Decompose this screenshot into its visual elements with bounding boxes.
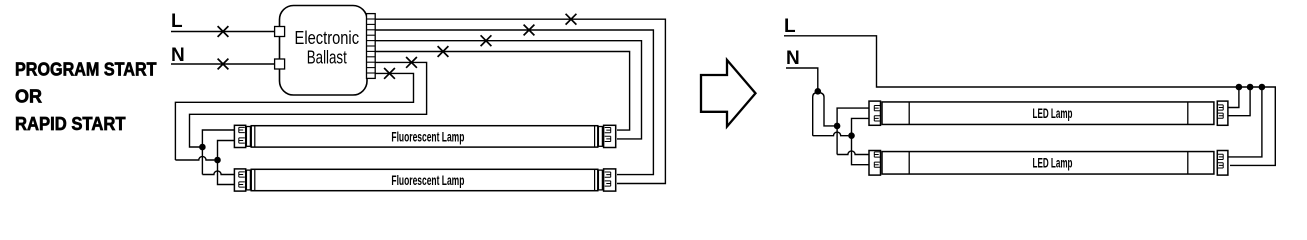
cut mark X on wire 6 [384, 68, 395, 79]
junction D2 (dot) [848, 132, 855, 139]
LED lamp LAMP4 body [869, 151, 1228, 176]
wire L feed to right side [784, 36, 1275, 166]
fluorescent lamp LAMP1 body [234, 125, 615, 147]
LED lamp LAMP3 body [869, 101, 1228, 125]
wire junction A down to bottom lamp left pin 1 (hops wire at x=217.5) [201, 147, 203, 175]
wire left branch to junction D2 (hops wire at x=837.1) [813, 132, 849, 136]
junction dot on L bus 3 [1259, 84, 1266, 91]
svg-text:N: N [171, 45, 185, 66]
wire junction B up to top lamp left pin 2 [218, 141, 237, 161]
junction D1 (dot) [834, 123, 841, 130]
junction A (dot) [199, 144, 206, 151]
svg-text:Electronic: Electronic [295, 27, 360, 48]
fluorescent lamp LAMP2 right pin contacts [605, 172, 611, 186]
wire ballast terminal 5 to junction A [190, 62, 427, 147]
LED lamp LAMP3 left pin contacts [874, 106, 880, 122]
fluorescent lamp LAMP2 body [234, 169, 615, 191]
ballast input terminal (N) [275, 59, 285, 69]
conversion arrow [701, 60, 756, 127]
wire ballast terminal 1 to bottom lamp right pin 2 [375, 19, 665, 183]
wire D2 down to bottom LED lamp left pin 2 [852, 136, 871, 165]
junction dot on L bus 1 [1236, 84, 1243, 91]
ballast input terminal (L) [275, 27, 285, 37]
cut mark X on wire 2 [524, 25, 535, 36]
svg-text:LED Lamp: LED Lamp [1033, 156, 1073, 171]
wire junction A up to top lamp left pin 1 [202, 130, 236, 147]
wire N to ballast [171, 63, 275, 65]
junction N1 (dot) [815, 88, 822, 95]
wire ballast terminal 3 to top lamp right pin 2 [375, 41, 641, 139]
svg-text:Ballast: Ballast [307, 47, 347, 68]
cut mark X on wire 1 [566, 14, 577, 25]
cut mark X on wire 3 [481, 35, 492, 46]
ballast label text [295, 27, 360, 68]
wire N1 split right branch [819, 93, 838, 126]
wire N down to junction N1 [786, 68, 818, 91]
svg-text:LED Lamp: LED Lamp [1033, 106, 1073, 121]
wire junction B down to bottom lamp left pin 2 [218, 160, 237, 185]
svg-text:OR: OR [15, 86, 43, 107]
wire ballast terminal 6 to junction B (hops wire at x=202.4) [175, 73, 413, 160]
wire D1 down to bottom LED lamp left pin 1 (hops wire at x=851.5) [836, 126, 838, 155]
cut mark X on wire 5 [406, 57, 417, 68]
wire D2 up to top LED lamp left pin 2 [852, 118, 871, 135]
svg-text:Fluorescent Lamp: Fluorescent Lamp [391, 173, 464, 188]
fluorescent lamp LAMP1 left pin contacts [239, 127, 245, 143]
junction dot on L bus 2 [1247, 84, 1254, 91]
fluorescent lamp LAMP1 right pin contacts [605, 128, 611, 142]
svg-text:L: L [171, 11, 183, 32]
label PROGRAM START OR RAPID START [15, 58, 157, 134]
wire D1 up to top LED lamp left pin 1 [837, 108, 870, 126]
svg-text:L: L [784, 16, 796, 37]
electronic ballast body [280, 6, 368, 96]
wire L to ballast [171, 31, 275, 33]
wire L bus to bottom LED lamp right pin 1 [1228, 87, 1262, 157]
wire L bus to top LED lamp right pin 2 [1227, 87, 1250, 116]
cut mark X on wire 4 [438, 46, 449, 57]
LED lamp LAMP4 left pin contacts [874, 152, 880, 167]
svg-text:RAPID START: RAPID START [15, 113, 126, 134]
wire N1 split left branch [813, 93, 817, 136]
junction B (dot) [214, 157, 221, 164]
wire ballast terminal 2 to bottom lamp right pin 1 [375, 30, 653, 175]
wire ballast terminal 4 to top lamp right pin 1 [375, 52, 629, 131]
svg-text:Fluorescent Lamp: Fluorescent Lamp [391, 129, 464, 144]
wire L bus to top LED lamp right pin 1 [1227, 87, 1239, 108]
LED lamp LAMP4 right pin contacts [1217, 154, 1223, 168]
svg-text:PROGRAM START: PROGRAM START [15, 58, 157, 79]
cut mark X on N wire [218, 59, 229, 70]
svg-text:N: N [786, 48, 800, 69]
fluorescent lamp LAMP2 left pin contacts [239, 172, 245, 187]
cut mark X on L wire [218, 26, 229, 37]
LED lamp LAMP3 right pin contacts [1217, 105, 1223, 118]
ballast output terminal block [367, 14, 376, 79]
